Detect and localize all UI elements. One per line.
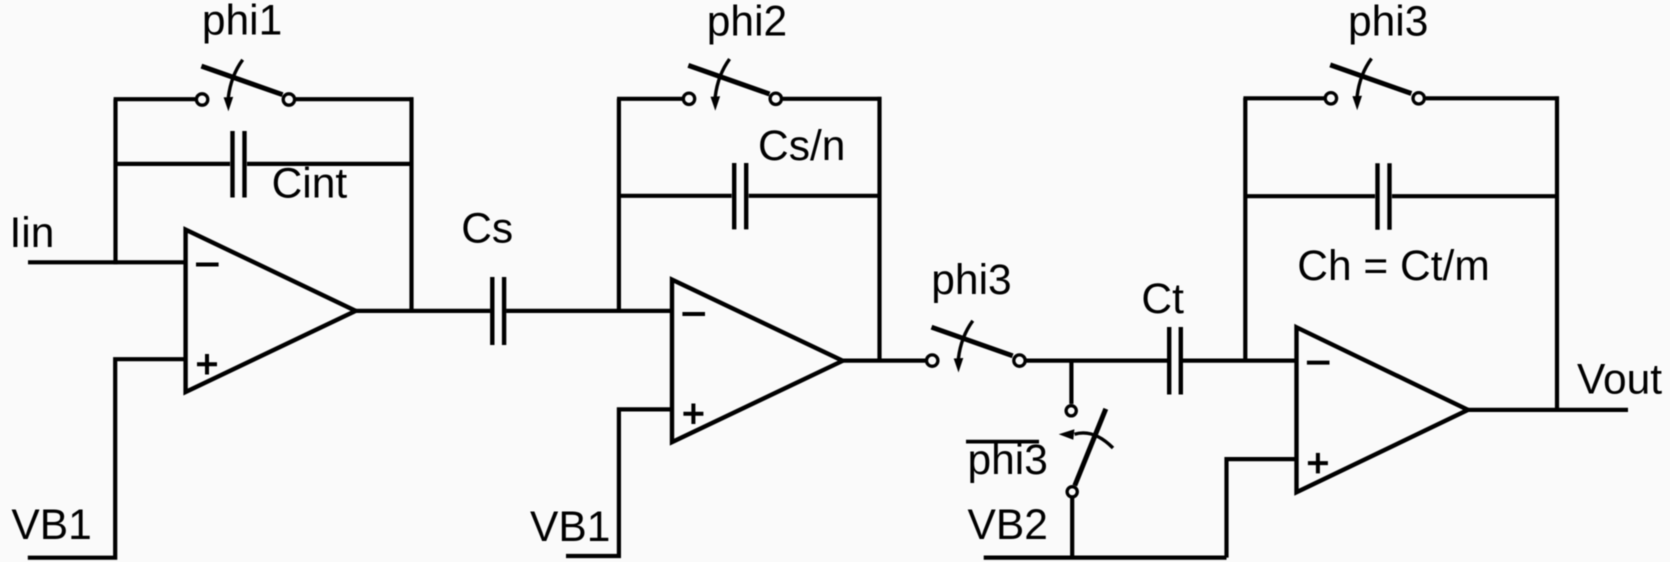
wire: S4 to VB2 rail xyxy=(1070,498,1074,558)
wire: VB2 rail riser to U3 non-inverting input xyxy=(1227,459,1297,557)
wire: Ct to U3 inverting input xyxy=(1183,359,1297,363)
svg-text:Vout: Vout xyxy=(1577,357,1662,404)
wire: Ch left lead xyxy=(1245,194,1375,198)
wire: U1 feedback right branch xyxy=(409,97,413,311)
wire: Cint left lead xyxy=(114,162,230,166)
capacitor Ch xyxy=(1378,163,1390,230)
wire: U2 feedback left branch xyxy=(617,99,621,313)
svg-text:Cs/n: Cs/n xyxy=(758,123,845,170)
wire: S3 to Ct xyxy=(1026,359,1167,363)
svg-text:phi3: phi3 xyxy=(1348,0,1428,46)
wire: U3 output xyxy=(1468,408,1628,412)
label phi3 overbar xyxy=(966,437,1048,484)
wire: U3 feedback right branch xyxy=(1555,96,1559,410)
svg-text:Cint: Cint xyxy=(272,161,348,208)
wire: VB2 rail xyxy=(984,555,1227,559)
wire: Cs/n left lead xyxy=(619,194,732,198)
svg-text:VB1: VB1 xyxy=(11,502,91,549)
wire: U3 feedback left branch xyxy=(1243,98,1247,363)
wire: feedback top right segment xyxy=(783,97,882,101)
switch S4 phi3-bar shunt xyxy=(1059,406,1113,497)
svg-text:Ch = Ct/m: Ch = Ct/m xyxy=(1297,243,1489,290)
capacitor Cs/n xyxy=(734,163,746,229)
wire: feedback top right segment xyxy=(296,97,414,101)
capacitor Ct xyxy=(1169,327,1181,395)
wire: U1 feedback left branch xyxy=(113,99,117,264)
wire: U3 feedback top left segment xyxy=(1243,96,1324,100)
wire: junction stub to S4 xyxy=(1069,361,1073,404)
svg-text:phi3: phi3 xyxy=(931,257,1011,304)
svg-text:phi2: phi2 xyxy=(707,0,787,46)
svg-text:VB2: VB2 xyxy=(968,502,1048,549)
capacitor Cs xyxy=(492,277,504,345)
op-amp U1 xyxy=(186,230,356,392)
switch S3 phi3 series xyxy=(927,321,1026,373)
wire: U1 feedback top left segment xyxy=(114,97,196,101)
switch S5 phi3 feedback xyxy=(1325,59,1424,111)
svg-text:Ct: Ct xyxy=(1141,276,1184,323)
wire: Ch right lead xyxy=(1392,194,1557,198)
svg-text:phi3: phi3 xyxy=(968,437,1048,484)
capacitor Cint xyxy=(233,131,245,198)
svg-text:Cs: Cs xyxy=(461,206,513,253)
switch S1 phi1 xyxy=(196,60,294,112)
svg-text:Iin: Iin xyxy=(10,210,55,257)
op-amp U3 xyxy=(1297,327,1469,492)
wire: U2 feedback right branch xyxy=(877,97,881,361)
op-amp U2 xyxy=(672,280,843,443)
wire: Cint right lead xyxy=(247,162,412,166)
wire: U1 output xyxy=(356,309,491,313)
switch S2 phi2 xyxy=(683,59,781,111)
wire: Cs/n right lead xyxy=(749,194,880,198)
wire: VB1 to U1 non-inverting input xyxy=(28,359,186,558)
wire: feedback top right segment xyxy=(1426,96,1559,100)
svg-text:phi1: phi1 xyxy=(202,0,282,45)
svg-text:VB1: VB1 xyxy=(530,504,610,551)
wire: VB1 to U2 non-inverting input xyxy=(566,409,672,556)
wire: U2 feedback top left segment xyxy=(617,97,682,101)
wire: Cs to U2 inverting input xyxy=(506,309,672,313)
wire: U2 output to S3 xyxy=(843,359,926,363)
wire: Iin input to U1 inverting input xyxy=(28,260,186,264)
